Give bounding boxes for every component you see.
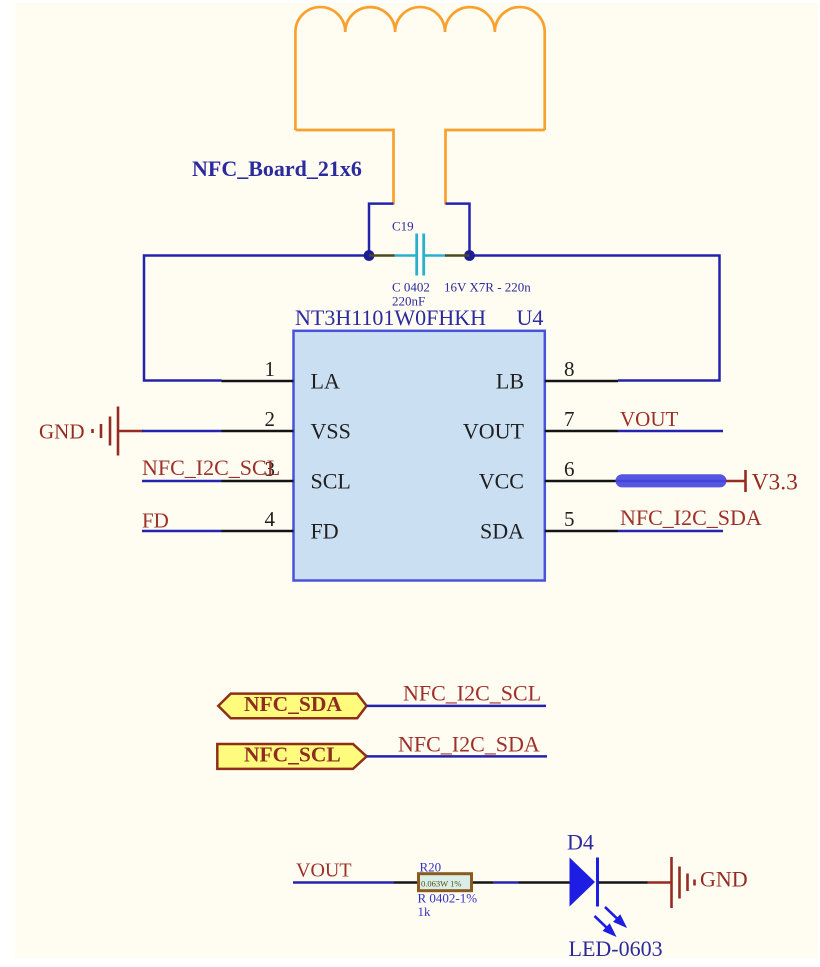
wire vout to resistor <box>293 881 394 884</box>
ground symbol GND left <box>93 407 144 456</box>
svg-text:FD: FD <box>142 509 169 533</box>
svg-text:GND: GND <box>39 420 85 444</box>
wire pin 7 <box>618 430 723 433</box>
svg-text:8: 8 <box>564 357 575 381</box>
svg-text:VOUT: VOUT <box>296 859 352 881</box>
wire pin 4 <box>142 530 222 533</box>
wire top net left segment <box>144 256 369 381</box>
inductor NFC antenna coil <box>295 7 544 204</box>
pin 2 VSS <box>222 407 351 444</box>
svg-text:D4: D4 <box>567 830 594 855</box>
svg-text:NFC_I2C_SCL: NFC_I2C_SCL <box>403 680 541 705</box>
svg-text:VOUT: VOUT <box>620 407 678 431</box>
svg-text:0.063W 1%: 0.063W 1% <box>421 879 461 889</box>
junction dot left <box>364 250 375 261</box>
IC U4 body <box>294 331 545 581</box>
LED D4 <box>519 858 648 907</box>
svg-text:NFC_Board_21x6: NFC_Board_21x6 <box>192 156 362 181</box>
svg-text:NFC_I2C_SDA: NFC_I2C_SDA <box>620 505 762 530</box>
svg-text:VOUT: VOUT <box>463 419 525 444</box>
pin 3 SCL <box>222 457 351 494</box>
pin 6 VCC <box>479 457 616 494</box>
LED emission arrows <box>595 907 627 936</box>
wire pin 2 <box>142 430 222 433</box>
svg-text:GND: GND <box>700 867 748 892</box>
power port V3.3 <box>726 470 746 492</box>
svg-text:VCC: VCC <box>479 469 524 494</box>
svg-text:NFC_SDA: NFC_SDA <box>244 692 342 716</box>
svg-text:FD: FD <box>311 519 339 544</box>
wire top net right segment <box>470 256 720 381</box>
svg-text:4: 4 <box>265 507 276 531</box>
resistor R20 <box>394 874 493 891</box>
ground symbol GND right <box>648 857 695 908</box>
svg-text:NFC_I2C_SDA: NFC_I2C_SDA <box>398 731 540 756</box>
pin 4 FD <box>222 507 339 544</box>
svg-text:VSS: VSS <box>311 419 351 444</box>
svg-text:1: 1 <box>265 357 276 381</box>
pin 1 LA <box>222 357 340 394</box>
wire resistor to led <box>493 881 519 884</box>
svg-text:2: 2 <box>265 407 276 431</box>
svg-text:LED-0603: LED-0603 <box>569 936 663 961</box>
svg-text:6: 6 <box>564 457 575 481</box>
wire pin 6 selected thick <box>616 474 727 487</box>
pin 8 LB <box>496 357 618 394</box>
wire left antenna elbow <box>369 204 394 256</box>
port NFC_SDA <box>218 694 366 719</box>
svg-text:C19: C19 <box>392 219 414 234</box>
wire pin 5 <box>618 530 723 533</box>
wire pin 3 <box>142 480 222 483</box>
wire from port NFC_SDA <box>367 705 546 708</box>
svg-text:LA: LA <box>311 369 340 394</box>
svg-text:NT3H1101W0FHKH: NT3H1101W0FHKH <box>295 305 486 330</box>
svg-text:SCL: SCL <box>311 469 351 494</box>
port NFC_SCL <box>217 744 366 769</box>
svg-text:NFC_SCL: NFC_SCL <box>244 743 341 767</box>
svg-text:7: 7 <box>564 407 575 431</box>
svg-text:V3.3: V3.3 <box>752 470 798 496</box>
svg-text:1k: 1k <box>418 904 432 919</box>
svg-text:5: 5 <box>564 507 575 531</box>
svg-text:16V X7R - 220n: 16V X7R - 220n <box>444 280 531 295</box>
pin 7 VOUT <box>463 407 618 444</box>
svg-text:U4: U4 <box>517 305 544 330</box>
svg-text:NFC_I2C_SCL: NFC_I2C_SCL <box>142 455 280 480</box>
svg-text:R20: R20 <box>420 860 442 875</box>
wire right antenna elbow <box>446 204 470 256</box>
pin 5 SDA <box>480 507 618 544</box>
svg-text:C 0402: C 0402 <box>392 280 430 295</box>
svg-text:SDA: SDA <box>480 519 524 544</box>
junction dot right <box>464 250 475 261</box>
wire from port NFC_SCL <box>367 755 547 758</box>
svg-text:LB: LB <box>496 369 524 394</box>
capacitor C19 <box>369 234 470 276</box>
